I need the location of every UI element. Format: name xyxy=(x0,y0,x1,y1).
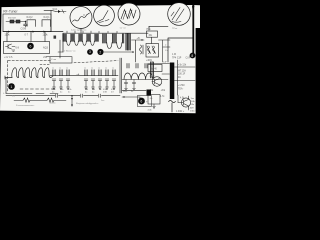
wire from W4 xyxy=(149,26,168,30)
vertical net line xyxy=(192,6,194,57)
video det box label xyxy=(172,54,191,59)
wire to AGC xyxy=(58,40,63,58)
svg-text:xx: xx xyxy=(98,68,100,70)
AGC box xyxy=(4,42,50,54)
svg-text:MHz: MHz xyxy=(123,91,127,93)
trap coil L4 xyxy=(147,46,151,54)
AGC feed wire xyxy=(14,93,58,95)
svg-text:·xx··xx·: ·xx··xx· xyxy=(119,28,127,30)
wire stub C xyxy=(44,32,46,42)
svg-text:RxQ2: RxQ2 xyxy=(27,16,34,19)
svg-text:1: 1 xyxy=(10,85,12,89)
IF transformer T6 core xyxy=(113,34,117,43)
capacitor C10 xyxy=(52,68,56,90)
svg-text:xx: xx xyxy=(52,68,54,70)
svg-text:43B: 43B xyxy=(103,91,107,93)
coil L1 xyxy=(5,68,53,79)
capacitor C12 xyxy=(66,68,70,90)
filter box F2 xyxy=(148,95,160,105)
wire tuner to mixer xyxy=(44,10,56,31)
svg-text:1.30Ω +: 1.30Ω + xyxy=(176,111,185,113)
svg-text:Rxxjxxxx·xxhdjgxxxlx·x: Rxxjxxxx·xxhdjgxxxlx·x xyxy=(76,103,99,105)
wire Q3 base rail xyxy=(177,95,179,103)
wire stub A xyxy=(6,32,8,42)
IF strip left edge xyxy=(62,33,64,52)
svg-text:1uF: 1uF xyxy=(163,62,167,64)
node N4 junction xyxy=(141,39,142,40)
transistor Q1 xyxy=(6,44,16,51)
svg-text:4x·: 4x· xyxy=(131,91,134,93)
svg-text:130x·: 130x· xyxy=(190,111,196,113)
wire W1 to bus xyxy=(80,29,82,34)
svg-text:40·: 40· xyxy=(178,77,182,79)
choke L3 xyxy=(140,45,144,54)
svg-text:xx: xx xyxy=(66,68,68,70)
video out wire xyxy=(122,89,146,91)
small box under tuner xyxy=(50,57,72,63)
wire stub B xyxy=(30,32,32,42)
callout badge 1 xyxy=(8,83,15,90)
coil L2 core xyxy=(151,62,154,78)
sync wire xyxy=(122,97,140,101)
IF transformer T2 core xyxy=(71,34,74,41)
svg-text:D·xxxxxxxxxxxxxx··: D·xxxxxxxxxxxxxx·· xyxy=(16,105,35,107)
wire sound takeoff xyxy=(132,40,145,62)
trap box T8 xyxy=(146,44,159,58)
IF transformer T3 winding xyxy=(83,41,87,45)
wire det link xyxy=(162,73,170,75)
svg-text:xx: xx xyxy=(59,68,61,70)
AGC bus wire xyxy=(6,94,120,97)
callout badge 3 xyxy=(87,49,93,55)
wire mid right xyxy=(159,40,171,62)
dashed stub to box xyxy=(40,63,50,65)
tuner shield box xyxy=(3,14,51,32)
svg-text:RxQ1: RxQ1 xyxy=(44,16,51,19)
svg-text:TDA·: TDA· xyxy=(178,88,184,91)
svg-text:·+B·: ·+B· xyxy=(136,38,141,40)
svg-text:100.1F: 100.1F xyxy=(178,74,186,76)
transistor Q2 xyxy=(152,77,162,87)
capacitor C13 xyxy=(84,68,88,90)
bypass bus xyxy=(50,75,118,77)
video det box xyxy=(168,38,193,62)
wire from badge 2 xyxy=(104,51,133,53)
IF transformer T4 core xyxy=(87,34,90,41)
mixer diode D1 xyxy=(56,10,66,14)
supply label xyxy=(178,85,185,91)
IF transformer T1 core xyxy=(63,34,66,41)
svg-text:3: 3 xyxy=(89,50,91,54)
svg-text:+1k 12k: +1k 12k xyxy=(178,65,187,67)
svg-text:+1.5M: +1.5M xyxy=(178,85,185,87)
junction block xyxy=(147,90,152,96)
svg-text:xx: xx xyxy=(91,68,93,70)
bus connection stubs xyxy=(67,31,117,33)
IF transformer T7 core xyxy=(126,34,130,51)
trap coil L5 xyxy=(152,46,156,54)
shield can S2 xyxy=(42,20,51,27)
IF transformer T2 winding xyxy=(75,41,79,45)
wire left riser xyxy=(6,78,14,94)
IF transformer T5 core xyxy=(103,34,107,43)
capacitor C11 xyxy=(59,68,63,90)
test box TP6 xyxy=(138,96,152,107)
svg-text:1·M: 1·M xyxy=(172,54,176,56)
svg-text:TP4 C1P: TP4 C1P xyxy=(172,57,182,59)
wire R10 down xyxy=(151,37,153,43)
svg-text:L·: L· xyxy=(165,44,167,46)
coupling cap C4 xyxy=(54,36,57,39)
callout badge 6 xyxy=(138,98,145,105)
svg-text:CUP: CUP xyxy=(186,57,191,59)
svg-text:6: 6 xyxy=(140,99,142,103)
transistor Q3 xyxy=(178,96,191,110)
capacitor C1 to ground xyxy=(24,22,28,28)
node N1 junction xyxy=(25,21,26,22)
shield can S1 xyxy=(27,20,36,27)
IF strip top bus xyxy=(63,32,148,34)
svg-text:RF·Tuner: RF·Tuner xyxy=(3,9,18,13)
svg-text:6: 6 xyxy=(30,44,32,48)
svg-text:COM: COM xyxy=(21,28,27,31)
svg-text:TPxx·: TPxx· xyxy=(172,28,178,30)
svg-text:L·78: L·78 xyxy=(3,93,8,95)
callout badge 5 xyxy=(27,43,34,50)
collector net label xyxy=(188,98,196,113)
svg-text:+·: +· xyxy=(146,100,148,103)
coil L2 xyxy=(122,64,168,80)
filter F1 xyxy=(6,20,26,23)
svg-text:8: 8 xyxy=(191,54,193,58)
waveform W4 xyxy=(168,3,191,26)
core bar coil tail xyxy=(169,101,176,113)
reg block label xyxy=(178,69,186,79)
schematic page xyxy=(0,0,200,120)
shield dashed bottom xyxy=(20,88,56,90)
wire signal bus with arrows xyxy=(3,31,63,33)
node dot xyxy=(123,96,124,97)
wire reg top xyxy=(174,66,195,68)
svg-text:110k: 110k xyxy=(43,33,49,36)
svg-text:xx: xx xyxy=(84,68,86,70)
svg-text:xxx xxx: xxx xxx xyxy=(8,17,17,20)
IF transformer T5 winding xyxy=(107,43,112,49)
ground G1 xyxy=(153,104,156,108)
svg-text:110k: 110k xyxy=(5,33,11,36)
svg-text:2: 2 xyxy=(99,50,101,54)
svg-text:W14: W14 xyxy=(53,9,58,11)
IF transformer T3 core xyxy=(79,34,82,41)
callout badge 2 xyxy=(97,49,103,55)
svg-text:MT.12A: MT.12A xyxy=(178,69,186,72)
IF transformer T4 winding xyxy=(91,41,95,45)
waveform W2 xyxy=(94,5,115,26)
capacitor C16 xyxy=(105,68,109,90)
IF transformer T6 winding xyxy=(117,43,122,49)
resistor R20 xyxy=(148,65,162,72)
wire into small box xyxy=(46,56,50,58)
waveform W3 xyxy=(118,3,140,25)
test point arrow xyxy=(71,95,73,107)
detector bus xyxy=(148,63,170,65)
inked core bar xyxy=(170,63,175,100)
svg-text:DM 40: DM 40 xyxy=(150,68,157,70)
callout badge 8 xyxy=(190,53,196,59)
svg-text:xx: xx xyxy=(105,68,107,70)
svg-text:tuner symbol xx: tuner symbol xx xyxy=(71,28,87,31)
svg-text:1.309: 1.309 xyxy=(188,107,194,109)
label row 20k group xyxy=(52,89,115,93)
svg-text:NQ3: NQ3 xyxy=(43,46,49,49)
capacitor C18 xyxy=(124,80,127,90)
capacitor C15 xyxy=(98,68,102,90)
IF transformer T6b core xyxy=(123,34,124,43)
shield dashed top xyxy=(8,60,52,62)
dashed link xyxy=(74,61,118,63)
wire reg bottom xyxy=(174,80,195,82)
IF transformer T4b core xyxy=(95,34,98,41)
sound IF box edge xyxy=(120,58,122,93)
svg-text:43·: 43· xyxy=(111,91,114,93)
capacitor C14 xyxy=(91,68,95,90)
wire right rail xyxy=(177,60,179,95)
svg-text:xx: xx xyxy=(112,68,114,70)
capacitor C17 xyxy=(112,68,116,90)
delay line xyxy=(14,98,66,102)
capacitor C19 xyxy=(132,80,135,90)
node N3 junction xyxy=(132,51,134,53)
IF transformer T1 winding xyxy=(67,41,71,45)
resistor R10 xyxy=(147,31,158,37)
svg-text:·40·: ·40· xyxy=(149,98,153,100)
svg-text:1·Bxxxx··xx: 1·Bxxxx··xx xyxy=(64,51,76,53)
svg-text:+1V 0.5·: +1V 0.5· xyxy=(4,56,13,59)
shield dashed left xyxy=(7,61,9,92)
waveform W1 xyxy=(70,7,92,29)
